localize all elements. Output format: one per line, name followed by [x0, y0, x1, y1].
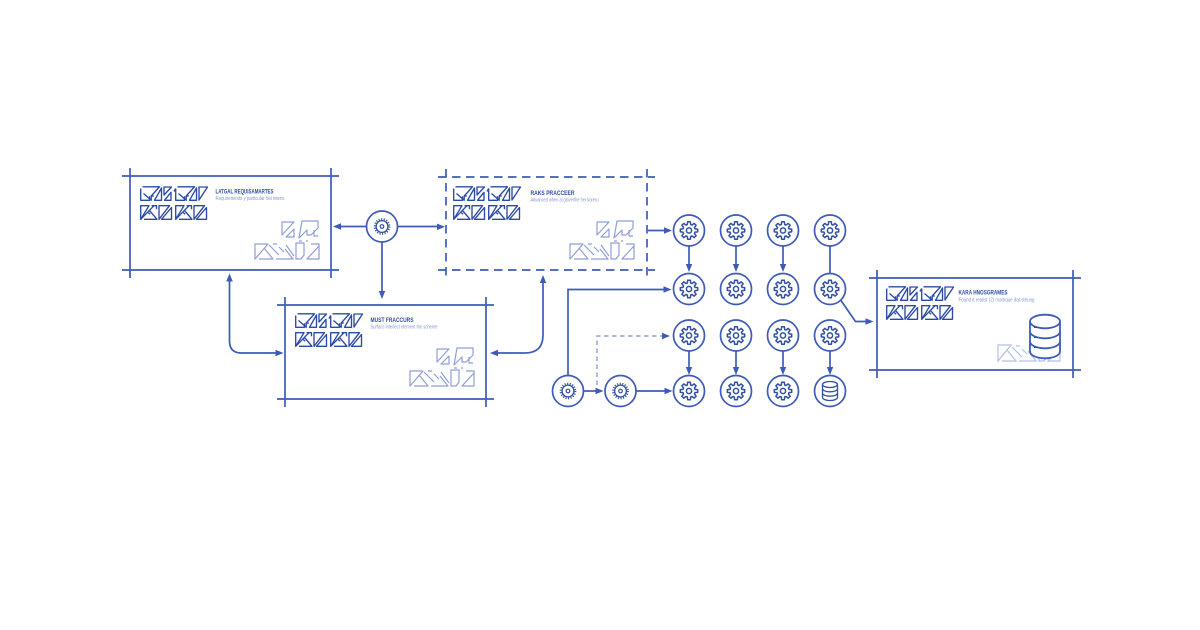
- gear node grid r3c4: [815, 320, 846, 351]
- svg-text:Found it realist (2) matrique: Found it realist (2) matrique dat steung: [959, 297, 1035, 303]
- gear node grid r2c4: [815, 274, 846, 305]
- database node grid r4c4: [815, 376, 846, 407]
- logo glyphs B1: [141, 187, 208, 220]
- process box B2 (Raks Pracceer, dashed): [438, 169, 655, 278]
- logo glyphs B3: [296, 314, 363, 347]
- gear node grid r4c3: [768, 376, 799, 407]
- gear node grid r3c3: [768, 320, 799, 351]
- gear A: [553, 376, 584, 407]
- arrow A to B: [584, 390, 598, 392]
- gear node grid r1c2: [721, 215, 752, 246]
- logo glyphs B4: [887, 287, 954, 320]
- gear node grid r4c2: [721, 376, 752, 407]
- arrow grid r3-r4: [735, 351, 737, 369]
- gear node grid r1c1: [674, 215, 705, 246]
- svg-text:LATGAL REQUISAMARTES: LATGAL REQUISAMARTES: [216, 189, 274, 196]
- wire grid r1-r2 c4: [829, 246, 831, 274]
- database icon B4: [1030, 315, 1060, 359]
- gear node grid r1c3: [768, 215, 799, 246]
- svg-text:RAKS PRACCEER: RAKS PRACCEER: [531, 190, 575, 197]
- gear node grid r1c4: [815, 215, 846, 246]
- arrow grid r3-r4: [829, 351, 831, 369]
- arrow G0 to B3: [381, 243, 383, 293]
- arrow G0 to B1: [340, 226, 366, 228]
- gear node grid r2c3: [768, 274, 799, 305]
- svg-text:KARA HNOSGRAMES: KARA HNOSGRAMES: [959, 290, 1008, 297]
- gear B: [605, 376, 636, 407]
- ghost glyphs B2: [570, 221, 634, 259]
- arrow grid r3-r4: [688, 351, 690, 369]
- arrow B2 to grid: [648, 230, 666, 232]
- svg-text:Surface interlect element the: Surface interlect element the scheme: [371, 324, 438, 330]
- arrow G0 to B2: [398, 226, 438, 228]
- svg-text:MUST FRACCURS: MUST FRACCURS: [371, 317, 414, 324]
- arrow grid r1-r2: [688, 246, 690, 266]
- arrow grid to B4: [841, 301, 867, 322]
- gear node grid r2c2: [721, 274, 752, 305]
- gear node grid r3c1: [674, 320, 705, 351]
- arrow B to grid r4c1: [636, 390, 666, 392]
- svg-text:Advanced when al gloverthe her: Advanced when al gloverthe her koreru: [531, 198, 599, 204]
- gear node grid r3c2: [721, 320, 752, 351]
- arrow grid r3-r4: [782, 351, 784, 369]
- dashed wire to row3: [597, 336, 664, 385]
- wire gear A up to row2: [568, 290, 665, 376]
- arrow grid r1-r2: [735, 246, 737, 266]
- logo glyphs B2: [454, 187, 521, 220]
- connector B1-B3: [230, 280, 278, 353]
- svg-text:Requirements y particular het: Requirements y particular het intens: [216, 196, 285, 202]
- gear node grid r2c1: [674, 274, 705, 305]
- ghost glyph row B4: [998, 345, 1060, 361]
- arrow grid r1-r2: [782, 246, 784, 266]
- process box B1 (Legal Requirements): [122, 168, 339, 278]
- ghost glyphs B1: [255, 221, 319, 259]
- gear node grid r4c1: [674, 376, 705, 407]
- gear hub G0: [367, 211, 398, 242]
- process box B3 (Must Fraccurs): [277, 297, 494, 407]
- connector B2-B3: [496, 281, 543, 353]
- ghost glyphs B3: [410, 348, 474, 386]
- output box B4 (Data Histograms): [869, 270, 1081, 378]
